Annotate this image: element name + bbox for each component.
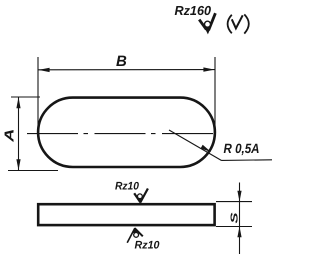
dimension A extension line top — [11, 96, 40, 98]
arrow A bottom — [16, 159, 20, 170]
leader line for corner radius — [169, 130, 222, 161]
svg-text:B: B — [116, 53, 127, 70]
roughness symbol Rz10 top — [134, 189, 148, 204]
dimension A line — [18, 97, 20, 171]
dimension S extension line bottom — [216, 226, 252, 228]
svg-text:S: S — [230, 212, 241, 224]
key side view rectangle — [38, 204, 214, 225]
svg-text:A: A — [2, 129, 17, 143]
arrow S bottom (pointing up) — [237, 226, 241, 237]
dimension S extension line top — [216, 201, 252, 203]
leader arrowhead on arc — [201, 145, 212, 152]
dimension B extension line right — [214, 57, 216, 133]
svg-text:R 0,5A: R 0,5A — [224, 141, 260, 156]
centerline (dash-dot) — [27, 133, 213, 135]
key top view: stadium outline — [38, 98, 215, 167]
arrow B left — [38, 68, 49, 72]
dimension S line (outside arrows) — [239, 183, 241, 255]
(check) symbol in parentheses — [228, 14, 249, 33]
arrow A top — [16, 97, 20, 108]
roughness symbol Rz10 bottom (inverted) — [127, 228, 143, 243]
roughness symbol Rz160 (check with circle) — [199, 13, 215, 34]
dimension A extension line bottom — [8, 170, 58, 172]
svg-text:Rz160: Rz160 — [175, 3, 212, 18]
dimension B line — [39, 69, 215, 71]
leader underline shelf — [222, 159, 273, 162]
svg-text:Rz10: Rz10 — [115, 181, 140, 193]
dimension B extension line left — [37, 57, 39, 135]
arrow S top (pointing down) — [237, 191, 241, 202]
svg-text:Rz10: Rz10 — [135, 240, 161, 252]
arrow B right — [203, 67, 214, 71]
